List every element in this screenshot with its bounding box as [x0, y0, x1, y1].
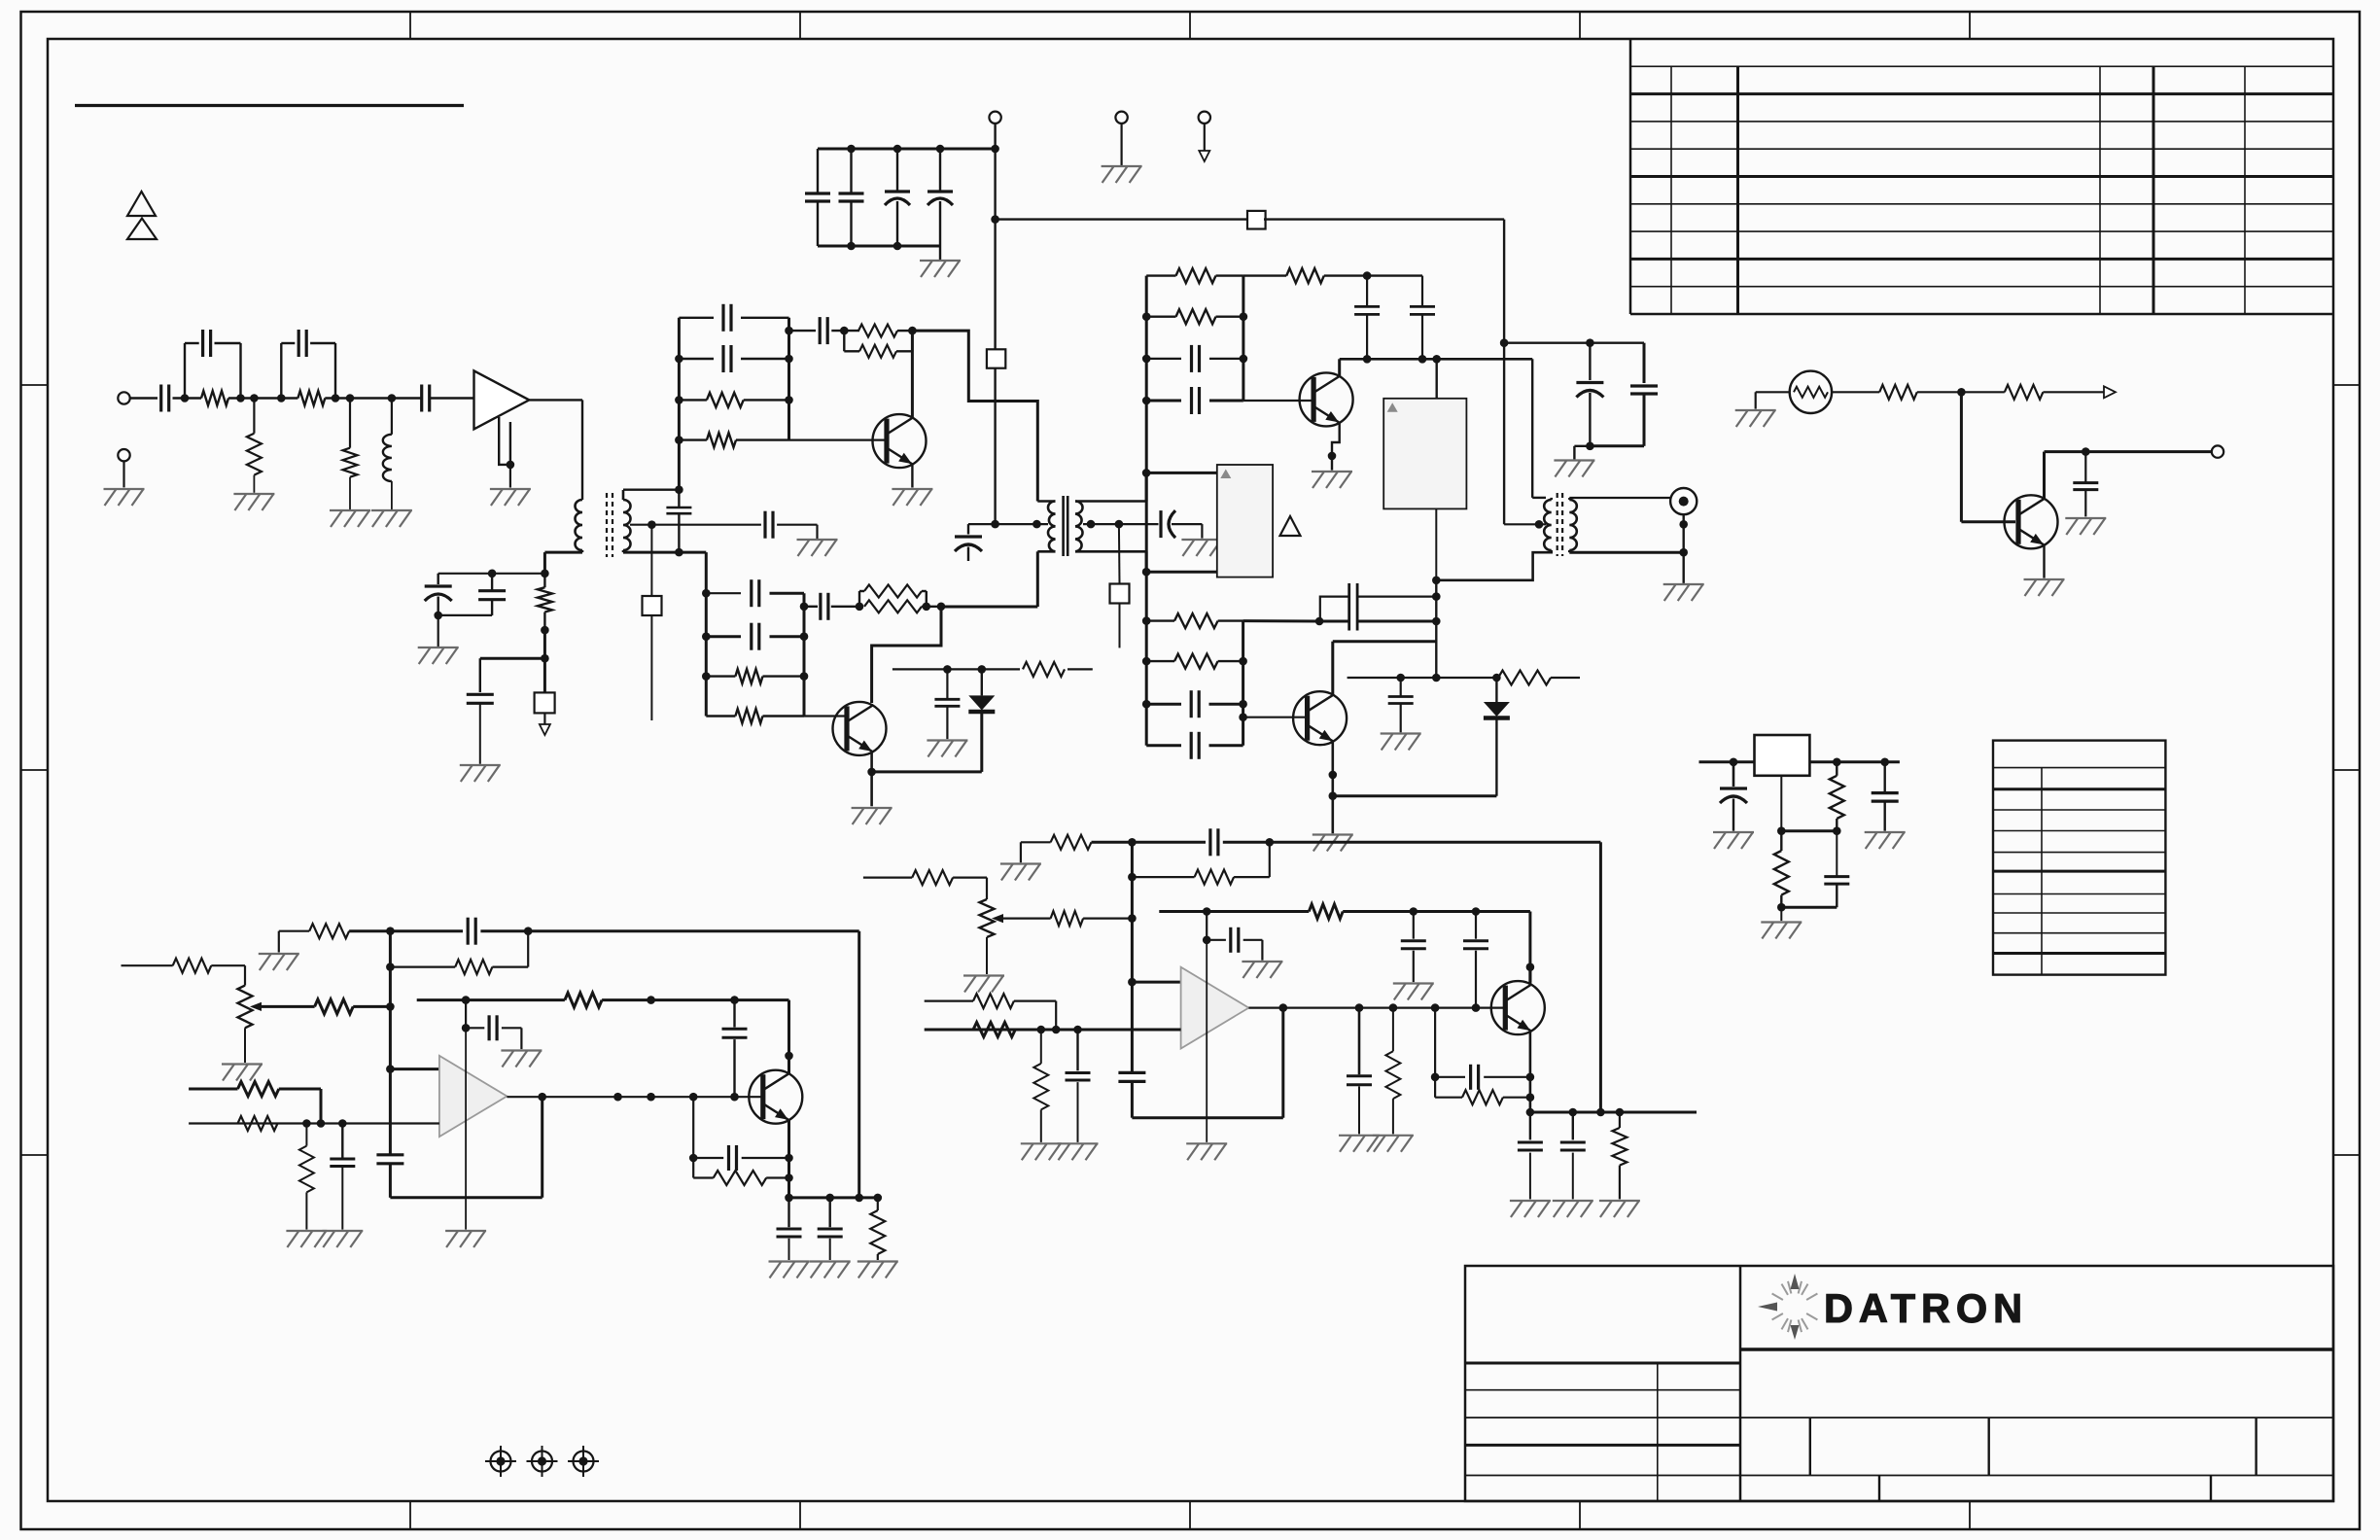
node G fb	[524, 927, 533, 935]
capacitor C30 (bank)	[706, 623, 804, 650]
node bias bottom left	[434, 612, 442, 620]
fiducial mark 3	[568, 1446, 599, 1477]
ground C47	[1058, 1143, 1099, 1160]
transformer T2 secondary	[1075, 502, 1146, 552]
node reg in	[1730, 758, 1738, 767]
wire Q2 emitter	[870, 752, 873, 807]
wire feed down to T3 tap	[1503, 343, 1505, 525]
wire Q5 collector	[2045, 452, 2212, 500]
node T2 sec bottom	[1142, 568, 1151, 577]
wire H fb run2	[1223, 841, 1270, 844]
ground R34	[857, 1262, 898, 1278]
wire T3 tap	[1504, 523, 1546, 525]
nodes H noninv	[1037, 1026, 1082, 1034]
wire Q3 collector	[1338, 359, 1341, 376]
wire fb join	[922, 606, 941, 608]
resistor R23	[1830, 762, 1844, 831]
wire R27 out	[349, 929, 390, 932]
ground C41	[501, 1051, 542, 1067]
ground H fb top	[1000, 864, 1041, 881]
resistor R1	[201, 391, 228, 405]
nodes left rail	[675, 355, 683, 444]
ground Q5	[2024, 579, 2065, 596]
ground C43	[769, 1262, 810, 1278]
capacitor C36	[1872, 762, 1899, 831]
node z4	[943, 665, 952, 674]
capacitor C31 (series fb)	[804, 593, 859, 620]
ground C33	[2065, 518, 2106, 535]
terminal J1 (+V supply)	[989, 112, 1000, 123]
transformer T3 secondary	[1569, 500, 1577, 550]
potentiometer P2	[980, 899, 1004, 937]
ground C34	[1713, 832, 1754, 849]
wire filter to ground	[1574, 446, 1590, 460]
wire Q3 base	[1243, 400, 1312, 402]
wire R37 out	[1092, 841, 1133, 844]
wire T2 sec tap	[1083, 523, 1159, 525]
wire T1 sec bottom	[623, 551, 706, 554]
wire fb gnd up	[279, 931, 309, 953]
wire H bias line	[1159, 910, 1309, 913]
wire fb span	[897, 330, 912, 332]
node bias C13	[488, 570, 497, 578]
wire to IC U2 pin	[1146, 472, 1217, 474]
wire T1 primary bottom	[544, 551, 582, 554]
wire R1 out	[228, 397, 297, 399]
capacitor C5 (polarized)	[1576, 343, 1603, 446]
transistor Q6	[749, 1070, 802, 1124]
wire tap to ground	[777, 525, 817, 539]
wire H bias run	[1343, 912, 1530, 983]
ground R41	[1021, 1143, 1062, 1160]
wire Q7 emitter	[1529, 1031, 1532, 1112]
wire input	[130, 397, 157, 399]
node supply tap	[991, 215, 999, 224]
resistor R43	[1385, 1008, 1400, 1135]
resistor R24	[1774, 831, 1789, 908]
node G rail wiper2	[386, 1065, 395, 1073]
wire to C15	[480, 658, 545, 692]
wire below S5	[1119, 604, 1121, 647]
resistor R20	[1023, 662, 1065, 677]
wire NS1 left	[1756, 392, 1790, 408]
resistor R6 (bank)	[679, 393, 788, 407]
wire stub below S3	[650, 615, 652, 720]
capacitor C26 (bank)	[1146, 732, 1242, 759]
wire tap line	[651, 524, 761, 526]
ground P2	[963, 976, 1004, 993]
capacitor C34 (polarized)	[1720, 762, 1747, 831]
terminal J5 (input ground)	[118, 449, 129, 461]
resistor R25	[173, 959, 212, 973]
node sec tap a	[1087, 520, 1096, 529]
capacitor C2	[839, 149, 864, 246]
resistor R17 (bank)	[706, 709, 804, 723]
resistor R22	[2005, 385, 2044, 400]
ground C15	[460, 765, 501, 782]
wire T3 primary bottom	[1436, 550, 1551, 580]
wire filter top	[1504, 342, 1644, 344]
node n5	[332, 394, 340, 402]
resistor R35	[912, 870, 953, 885]
wire G bottom rail	[789, 1196, 878, 1199]
capacitor C54	[1560, 1112, 1586, 1199]
resistor R13 (bank)	[1146, 613, 1242, 628]
wire Q1 collector	[911, 331, 914, 418]
ground J5	[104, 489, 145, 506]
wire Q2 base	[804, 715, 845, 717]
wire Q4 emitter	[1332, 742, 1335, 834]
transistor Q2	[833, 702, 887, 755]
wire fb to T3	[1532, 359, 1546, 498]
resistor R33 (rc)	[693, 1171, 788, 1185]
noise source NS1	[1790, 371, 1832, 413]
wire fb line Q3	[1340, 358, 1533, 361]
nodes G bottom	[825, 1194, 882, 1203]
wire bias run	[602, 1000, 788, 1073]
capacitor C39 (to gnd)	[330, 1124, 355, 1230]
ground P1	[222, 1065, 262, 1081]
transformer T3 primary	[1544, 498, 1551, 550]
ground output	[1663, 584, 1704, 601]
wire H long vertical	[1206, 940, 1207, 1142]
wire CN1 down	[1682, 514, 1684, 552]
transistor Q4	[1293, 691, 1347, 745]
wire NS1 right	[1832, 391, 1879, 393]
node fb vert b	[1432, 617, 1441, 626]
wire T2 primary bottom	[941, 551, 1037, 607]
wire R3 out	[325, 397, 422, 399]
capacitor C22 (bank)	[1146, 387, 1243, 414]
node H inv	[1128, 978, 1137, 987]
node bias tee	[541, 654, 549, 663]
wire supply feed right	[996, 218, 1249, 220]
resistor R42	[1309, 904, 1343, 919]
diode D2	[1484, 678, 1510, 796]
wire T3 sec top	[1569, 498, 1670, 500]
wire tap stub T2	[1118, 524, 1121, 583]
resistor R32	[565, 993, 602, 1007]
node feed split	[1500, 338, 1509, 347]
node fb2	[908, 327, 917, 335]
capacitor C41 (comp)	[462, 1000, 522, 1050]
resistor R36	[1051, 911, 1084, 926]
node sec tap b	[1115, 520, 1124, 529]
resistor R2 (shunt)	[247, 399, 262, 493]
resistor R3	[297, 391, 325, 405]
wire reg input	[1699, 760, 1755, 763]
resistor R29	[238, 1116, 278, 1131]
wire bias from T1	[543, 552, 546, 574]
wire T1 center tap	[630, 524, 651, 526]
op-amp U1 ground stubs	[499, 417, 510, 488]
capacitor C27 (fb stack)	[1349, 583, 1357, 631]
terminal J6 (monitor out)	[2212, 445, 2223, 457]
resistor R31 (to gnd)	[299, 1124, 314, 1230]
terminal J4 (signal input)	[118, 392, 129, 403]
wire P1 bottom	[244, 1028, 246, 1063]
ground C36	[1865, 832, 1906, 849]
wire Q3 bank right rail	[1242, 276, 1244, 401]
node Q3 emitter	[1328, 452, 1337, 461]
node Q5 out	[2082, 447, 2090, 456]
ground C20	[1181, 540, 1222, 556]
wire feed to right stage	[1264, 220, 1504, 343]
capacitor C9 (parallel loop)	[281, 330, 335, 399]
node n1	[181, 394, 190, 402]
wire G rail corner	[390, 1097, 542, 1198]
node Q4 fb	[1315, 617, 1324, 626]
ground below decoupling	[920, 246, 961, 277]
wire R26 out	[353, 1005, 390, 1008]
capacitor C37 (fb)	[468, 918, 475, 945]
wire supply vertical	[994, 220, 996, 524]
wire U1 output	[529, 400, 582, 500]
resistor R8 (fb pair top)	[858, 325, 897, 337]
connector square S2	[987, 349, 1005, 367]
wire H fb long	[1270, 842, 1601, 1112]
wire T3 sec bottom	[1569, 550, 1683, 552]
capacitor C50	[1463, 912, 1488, 1008]
node T3 tap	[1535, 520, 1544, 529]
ground R2	[233, 494, 274, 510]
node T3 sec bottom	[1679, 548, 1688, 557]
node CN1 stem	[1679, 520, 1688, 529]
wire J3 down	[1204, 123, 1206, 151]
ground G long	[445, 1231, 486, 1247]
node fb6	[937, 603, 946, 612]
node reg adj	[1777, 826, 1786, 835]
wire Q4 bank right rail	[1242, 621, 1244, 746]
node filter bottom	[1586, 442, 1594, 451]
node fb1	[840, 327, 849, 335]
capacitor C19 (tap, polarized)	[955, 524, 982, 561]
nodes Q7 emitter	[1526, 1073, 1535, 1117]
resistor R18 (fb top)	[859, 585, 927, 607]
transformer T2 core	[1064, 496, 1068, 556]
IC U2	[1217, 465, 1273, 577]
connector square S5	[1110, 584, 1130, 604]
wire H rc pair	[1434, 1008, 1436, 1098]
title underline	[75, 104, 464, 107]
resistor R38 (fb)	[1132, 842, 1269, 884]
parts table	[1993, 741, 2165, 975]
capacitor C35	[1824, 831, 1849, 908]
ground Q1	[892, 489, 932, 506]
capacitor C40	[722, 1000, 748, 1098]
node T1 sec bottom	[675, 548, 683, 557]
ground C32	[927, 741, 967, 757]
resistor R45	[1612, 1112, 1627, 1199]
wire Q2 emitter rail	[872, 714, 982, 772]
resistor R10 (bank)	[1146, 268, 1243, 283]
wire zener line Q4	[1347, 677, 1580, 679]
capacitor C33	[2073, 452, 2098, 517]
ground R4	[330, 510, 370, 527]
ground G fb top	[259, 954, 299, 970]
wire U3 bottom	[1435, 508, 1437, 579]
nodes G noninv	[302, 1119, 347, 1128]
wire Q4 collector	[1333, 642, 1437, 695]
wire Q2 collector path	[872, 607, 941, 703]
capacitor C20 (polarized)	[1161, 510, 1175, 538]
resistor R28 (fb)	[390, 931, 528, 974]
transformer T3 core	[1557, 493, 1562, 556]
capacitor C32	[934, 669, 960, 739]
nodes main rail	[1142, 312, 1151, 404]
resistor R27	[309, 924, 349, 938]
node fb5	[923, 603, 931, 612]
wire Q6 emitter	[787, 1120, 790, 1198]
node Q2 emitter	[867, 768, 876, 777]
resistor R16 (bank)	[706, 669, 804, 683]
resistor R39	[973, 1023, 1015, 1037]
node T2 sec top	[1142, 469, 1151, 477]
nodes G base line	[613, 1093, 739, 1102]
resistor R44 (rc)	[1435, 1090, 1530, 1104]
fiducial mark 2	[527, 1446, 558, 1477]
resistor R26	[315, 999, 354, 1014]
wire Q3 emitter	[1332, 423, 1340, 471]
node H rail top	[1128, 838, 1137, 847]
ground C44	[810, 1262, 851, 1278]
op-amp U6	[1181, 967, 1249, 1049]
note triangle 2	[127, 219, 157, 240]
wire Q5 base feed	[1961, 392, 2015, 522]
capacitor C12 (tap coupling)	[765, 511, 773, 539]
resistor R19 (fb bottom)	[864, 600, 922, 612]
node reg out a	[1833, 758, 1841, 767]
wire P2 bottom	[986, 937, 988, 974]
wire R30 out	[279, 1089, 321, 1124]
wire Q4 base	[1243, 717, 1306, 718]
ground R43	[1373, 1136, 1414, 1152]
potentiometer P1	[238, 986, 262, 1029]
regulator U4	[1755, 735, 1810, 776]
wire H bottom rail	[1530, 1111, 1697, 1114]
wire G fb long	[528, 931, 859, 1198]
terminal J2 (chassis)	[1115, 112, 1127, 123]
wire to R1	[173, 397, 202, 399]
op-amp U1	[474, 370, 530, 429]
ground C28	[1381, 734, 1421, 751]
ground C51	[1339, 1136, 1380, 1152]
ground H long	[1186, 1143, 1227, 1160]
resistor R4 (shunt)	[343, 399, 358, 510]
node bottom rail junctions	[847, 242, 901, 251]
capacitor C17 (bank)	[679, 345, 788, 372]
wire to output ground	[1682, 552, 1684, 583]
wire S4 to arrow	[543, 713, 545, 725]
resistor R11 (bank)	[1146, 309, 1243, 324]
node R24 bottom	[1777, 903, 1786, 912]
ground NS1	[1735, 410, 1776, 427]
resistor R7 (bank)	[679, 433, 788, 447]
IC U3	[1383, 399, 1466, 509]
wire H input1	[863, 876, 912, 878]
resistor R9 (fb pair bottom)	[844, 331, 912, 358]
node reg out b	[1880, 758, 1889, 767]
capacitor C7 (input coupling)	[161, 385, 169, 412]
resistor R14 (bank)	[1146, 654, 1242, 669]
nodes Q4 left rail	[1142, 616, 1151, 708]
capacitor C44	[818, 1198, 843, 1260]
capacitor C28	[1388, 678, 1414, 732]
node G rail wiper	[386, 1002, 395, 1011]
resistor R15	[1498, 671, 1551, 685]
connector square S3	[643, 596, 662, 615]
wire tap stub	[650, 525, 652, 596]
resistor R21	[1879, 385, 1917, 400]
title block	[1465, 1266, 2333, 1501]
capacitor C23	[1354, 276, 1380, 360]
arrow output	[2104, 386, 2116, 398]
node z2	[1432, 674, 1441, 682]
terminal J3 (output ref)	[1199, 112, 1210, 123]
nodes G bias	[462, 996, 793, 1060]
wire H fb gnd up	[1021, 842, 1051, 862]
node n7	[388, 394, 397, 402]
arrow at J3	[1199, 151, 1209, 161]
node rail junctions	[847, 145, 999, 154]
resistor R5 (bias)	[538, 574, 552, 630]
wire T1 bottom corner	[705, 552, 708, 593]
ground R31	[286, 1231, 327, 1247]
node fb4	[856, 603, 864, 612]
ground at J2	[1102, 166, 1142, 183]
inductor L1 (shunt)	[383, 399, 392, 510]
transistor Q3	[1300, 372, 1353, 426]
node T1 tap	[647, 520, 656, 529]
transistor Q5	[2005, 495, 2058, 548]
nodes Q2 left rail	[702, 589, 711, 681]
ground Q3	[1312, 472, 1352, 488]
capacitor C53	[1518, 1112, 1543, 1199]
node G rail r2	[386, 962, 395, 971]
capacitor C38 (rail)	[376, 1155, 403, 1198]
wire Q4 fb link	[1243, 619, 1320, 622]
wire G long vertical	[465, 1028, 467, 1229]
wire Q4 bank left rail	[1145, 621, 1148, 746]
nodes right rail	[785, 327, 793, 404]
ground L1	[371, 510, 412, 527]
node n4	[277, 394, 286, 402]
nodes Q3 rail	[1240, 312, 1248, 363]
capacitor C24	[1410, 276, 1435, 360]
wire Q1 bank right rail	[787, 318, 790, 440]
wire to op-amp	[430, 397, 474, 399]
wire H rail corner	[1132, 1008, 1282, 1118]
ground bias	[418, 615, 459, 664]
node fb vert a	[1432, 592, 1441, 601]
capacitor C3 (polarized)	[885, 149, 910, 246]
nodes Q2 right rail	[800, 603, 809, 681]
nodes Q4 right rail	[1239, 657, 1247, 721]
wire G rc pair	[692, 1097, 694, 1177]
node G rail top	[386, 927, 395, 935]
diode D1	[968, 669, 995, 712]
wire R35 to pot	[953, 878, 987, 899]
wire R25 to pot	[211, 965, 245, 985]
wire to U3	[1435, 359, 1437, 399]
wire Q7 collector	[1528, 967, 1531, 986]
wire reg adj	[1780, 776, 1782, 831]
transformer T1 core	[607, 493, 612, 557]
resistor R40	[973, 994, 1014, 1008]
node H rail wiper	[1128, 914, 1137, 923]
transistor Q1	[873, 414, 927, 468]
wire Q5 emitter	[2043, 545, 2045, 578]
